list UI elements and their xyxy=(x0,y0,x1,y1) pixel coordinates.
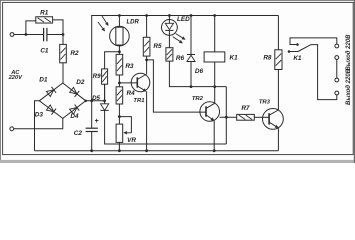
svg-text:R9: R9 xyxy=(93,73,101,80)
terminal: output 1 xyxy=(335,44,339,48)
svg-text:R2: R2 xyxy=(70,50,79,57)
wire: bridge right vertex to DC+ node xyxy=(86,100,105,102)
node: bus to LDR xyxy=(118,14,121,17)
node: C2 to ground rail xyxy=(90,149,93,152)
wire: K1 coil to TR2 collector xyxy=(214,62,216,103)
svg-text:D4: D4 xyxy=(70,113,79,120)
wire: DC+ vertical to top bus xyxy=(92,16,279,101)
node: VR wiper tie xyxy=(118,115,121,118)
svg-text:Выход 220В: Выход 220В xyxy=(346,34,352,71)
terminal: AC input live xyxy=(10,33,14,37)
svg-text:VR: VR xyxy=(127,137,136,144)
resistor R2 xyxy=(60,44,67,62)
wire: bus to LED xyxy=(168,16,170,20)
terminal: output 3 xyxy=(335,78,339,82)
border frame xyxy=(3,2,354,154)
svg-text:R3: R3 xyxy=(125,63,134,70)
LDR arrows xyxy=(102,16,107,23)
svg-text:TR2: TR2 xyxy=(192,96,204,102)
wire: neutral to bridge bottom xyxy=(14,118,63,128)
wire: TR1 collector to R5 xyxy=(146,60,148,74)
wire: collector net down to emitter rail xyxy=(225,87,227,144)
resistor R7 xyxy=(237,114,255,120)
capacitor C1 xyxy=(43,28,45,42)
wire: base TR1 xyxy=(119,82,137,84)
transistor TR2 xyxy=(200,102,220,122)
svg-text:D2: D2 xyxy=(76,79,85,86)
diode D3 xyxy=(46,105,53,112)
terminal: output 2 xyxy=(335,56,339,60)
scan edge shading xyxy=(0,0,355,2)
wire: node down to R2 xyxy=(62,35,64,45)
transistor TR3 xyxy=(263,109,284,130)
node: bus to LED xyxy=(168,14,171,17)
wire: output 2 to output 3 xyxy=(336,59,338,78)
svg-text:C1: C1 xyxy=(40,48,49,55)
svg-text:LED: LED xyxy=(177,16,190,23)
svg-text:D6: D6 xyxy=(195,68,204,75)
node: DC+ column junction xyxy=(90,99,93,102)
capacitor C2 xyxy=(91,101,93,128)
wire: bottom rail (ground) xyxy=(35,150,279,152)
node: D5 top junction xyxy=(103,99,106,102)
wire: branch to R9 xyxy=(105,52,120,69)
diode D5 xyxy=(104,84,106,104)
transistor TR1 xyxy=(131,73,150,92)
wire: top bus corner down to R8 xyxy=(277,16,279,50)
wire: bus to LDR xyxy=(118,16,120,28)
diode D4 xyxy=(70,108,77,115)
svg-text:D1: D1 xyxy=(39,77,48,84)
resistor R1 xyxy=(36,17,53,23)
terminal: AC input neutral xyxy=(10,127,14,131)
svg-text:LDR: LDR xyxy=(127,20,140,26)
wire: bus to D6 xyxy=(190,16,192,55)
wire: D5 to emitter rail xyxy=(105,110,227,144)
wire: LED to R6 xyxy=(168,35,170,47)
wire: R1 to node xyxy=(53,20,63,35)
resistor R6 xyxy=(166,48,173,61)
node: R5/TR1/TR2-base junction xyxy=(145,59,148,62)
wire: bridge left vertex to ground rail xyxy=(35,101,40,151)
potentiometer VR xyxy=(116,124,123,142)
node: R1/C1/R2 junction xyxy=(62,33,65,36)
wire: R5 to bus xyxy=(146,16,148,38)
resistor R3 xyxy=(116,54,123,75)
wire: R3 to R4 xyxy=(118,75,120,87)
wire: branch up to R1 xyxy=(26,21,36,35)
wire: TR3 emitter to ground rail xyxy=(277,128,279,151)
svg-text:TR3: TR3 xyxy=(259,100,271,106)
diode D6 xyxy=(187,54,195,56)
wire: R7 to TR3 base xyxy=(254,116,269,118)
svg-text:R4: R4 xyxy=(127,90,136,97)
resistor R8 xyxy=(275,50,282,70)
svg-text:K1: K1 xyxy=(293,55,302,62)
wire: LDR to R3 xyxy=(118,45,120,54)
node: bus to D6 xyxy=(190,14,193,17)
LED xyxy=(162,20,178,36)
wire: TR1 emitter to ground rail xyxy=(146,92,148,151)
svg-text:TR1: TR1 xyxy=(133,98,144,104)
terminal: output 4 xyxy=(335,91,339,95)
svg-text:R7: R7 xyxy=(241,105,250,112)
svg-text:220V: 220V xyxy=(8,75,23,81)
resistor R9 xyxy=(102,69,108,84)
svg-text:K1: K1 xyxy=(230,55,239,62)
node: R3/R4/TR1 base xyxy=(118,82,121,85)
LED arrows xyxy=(176,34,183,38)
node: collector net junction xyxy=(213,85,216,88)
wire: R2 to bridge top xyxy=(62,63,64,83)
svg-text:R5: R5 xyxy=(153,43,162,50)
node: bus to K1 xyxy=(213,14,216,17)
diode D1 xyxy=(46,90,53,97)
node: junction live/R1 branch xyxy=(25,33,28,36)
wire: TR2 to R7 xyxy=(220,116,237,118)
wire: R5 bottom to TR2 base xyxy=(146,56,148,60)
resistor R4 xyxy=(116,87,123,104)
svg-text:D5: D5 xyxy=(92,95,100,102)
wire: R9 to D5 xyxy=(104,84,106,101)
node: R7/emitter-rail junction xyxy=(225,116,228,119)
resistor R5 xyxy=(143,37,150,56)
wire: C1 to node xyxy=(47,34,63,36)
wire: R4 to VR xyxy=(118,104,120,124)
relay coil K1 xyxy=(204,52,225,62)
wire: VR to ground rail xyxy=(118,142,120,150)
svg-text:Выход 220В: Выход 220В xyxy=(346,68,352,105)
svg-text:R6: R6 xyxy=(176,55,185,62)
wire: TR3 collector to R8 xyxy=(277,70,279,111)
svg-text:D3: D3 xyxy=(35,112,44,119)
LDR xyxy=(110,26,130,46)
node: LDR/R3/R9 junction xyxy=(118,50,121,53)
wire: R6 down and across to TR2 collector net xyxy=(169,61,226,87)
relay contact K1 xyxy=(296,43,299,46)
wire: live input to C1 xyxy=(14,34,44,36)
VR wiper xyxy=(127,132,132,134)
diode D2 xyxy=(70,87,77,94)
svg-text:+: + xyxy=(95,118,99,125)
svg-text:R8: R8 xyxy=(263,55,272,62)
svg-text:R1: R1 xyxy=(40,9,49,16)
wire: bus to K1 coil xyxy=(214,16,216,52)
svg-text:C2: C2 xyxy=(74,130,83,137)
wire: D6 to collector net xyxy=(190,62,192,87)
wire: bridge diamond edges xyxy=(39,83,85,118)
wire: TR2 emitter to ground rail xyxy=(213,121,215,151)
